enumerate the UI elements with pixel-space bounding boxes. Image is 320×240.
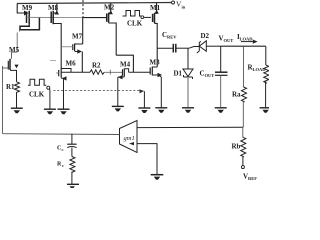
transistor M6: [56, 68, 71, 81]
wire: top supply rail: [17, 3, 172, 4]
wire: mirror gate line M9-M8-junction-M2: [27, 16, 84, 18]
ground at dashed net end: [138, 108, 150, 113]
wire: node wire M6/M7/R2: [61, 71, 90, 73]
wire: M2 drain jog over M4: [116, 55, 133, 72]
resistor R1: [15, 82, 20, 93]
svg-text:c: c: [62, 163, 64, 168]
ground below R1: [11, 108, 23, 113]
CLK square wave (bottom left): [28, 79, 46, 85]
transistor M3: [150, 67, 162, 78]
wire: Ra down to feedback node: [242, 102, 244, 128]
wire: Rb to VREF terminal: [242, 157, 244, 166]
wire: M1 drain node to CREV: [157, 47, 173, 49]
wire: dashed net arrow into grounded drop: [139, 89, 144, 93]
ground below Rc: [67, 184, 79, 188]
wire: feedback node down to Rb: [242, 127, 244, 137]
ground below CLK bubble: [44, 109, 56, 114]
diode D2 (schottky, pointing left): [197, 41, 207, 53]
svg-text:Ra: Ra: [232, 91, 241, 99]
capacitor COUT: [215, 72, 228, 75]
wire: Rc to ground: [71, 172, 73, 185]
wire: M2 drain down: [109, 23, 117, 55]
wire: RLOAD to ground: [265, 81, 267, 107]
node Vin terminal circle: [172, 1, 175, 4]
resistor Ra: [242, 87, 247, 102]
wire: M3 source to ground: [160, 77, 162, 107]
wire: gm1 output to left feedback wire: [3, 133, 120, 136]
svg-text:CLK: CLK: [29, 91, 45, 99]
svg-text:LOAD: LOAD: [240, 37, 254, 42]
wire: M7 source down to R2 node: [81, 52, 83, 73]
transistor M8: [51, 4, 59, 25]
svg-text:M1: M1: [150, 4, 161, 12]
svg-text:Rb: Rb: [232, 143, 241, 151]
ground below M4: [112, 106, 124, 111]
wire: D1 to ground: [187, 78, 189, 107]
wire: Cc to Rc: [71, 148, 73, 157]
wire: VOUT down to COUT: [220, 46, 222, 71]
wire: compensation tap from output wire: [71, 134, 73, 144]
wire: node to D2: [188, 46, 199, 48]
svg-text:M2: M2: [104, 4, 115, 12]
svg-text:R1: R1: [6, 83, 15, 91]
wire: COUT to ground: [220, 75, 222, 107]
wire: M9 drain down to M5 source: [17, 30, 19, 52]
transistor M9: [17, 4, 29, 25]
wire: M5 drain to R1: [10, 70, 17, 81]
ground below D1: [182, 108, 194, 113]
inverter bubble on CLK line: [47, 86, 50, 89]
wire: M4 source to ground: [117, 77, 119, 106]
svg-text:LOAD: LOAD: [253, 67, 267, 72]
wire: M7 gate lead from M8 drain line: [61, 46, 73, 48]
resistor Rb: [241, 137, 246, 157]
ground below M6: [58, 109, 70, 114]
svg-text:c: c: [62, 147, 64, 152]
resistor RLOAD: [264, 65, 269, 83]
wire: small stray dash near M7: [50, 60, 56, 62]
wire: junction to M2 gate: [83, 17, 107, 19]
svg-text:REV: REV: [167, 35, 177, 40]
wire: M6 source to ground: [63, 78, 65, 109]
wire: R1 to ground: [16, 93, 18, 108]
svg-text:OUT: OUT: [224, 38, 234, 43]
svg-text:M6: M6: [66, 60, 77, 68]
wire: VOUT rail to RLOAD: [221, 45, 266, 47]
svg-text:gm1: gm1: [124, 135, 135, 142]
transistor M5: [8, 59, 18, 70]
CLK square wave near M1: [123, 11, 142, 17]
inverter bubble at M1 gate: [141, 16, 144, 19]
resistor R2: [90, 70, 104, 75]
wire: M8 drain down to M6: [53, 24, 61, 69]
transistor M4: [118, 68, 129, 79]
svg-text:R2: R2: [92, 61, 101, 69]
resistor Rc: [70, 157, 75, 173]
wire: VOUT down to Ra: [243, 46, 245, 87]
svg-text:M5: M5: [9, 46, 20, 54]
wire: dashed vertical at x=83 from top edge: [82, 0, 84, 18]
transistor M7: [73, 43, 83, 53]
wire: R2 to M4 gate and on to M3 gate: [104, 71, 122, 73]
svg-text:D1: D1: [174, 70, 183, 78]
wire: bubble to ground drop: [49, 89, 51, 109]
svg-text:in: in: [182, 4, 186, 9]
wire: bubble to M1 gate: [144, 16, 151, 18]
svg-text:M4: M4: [120, 61, 131, 69]
wire: M4 drain-gate node to M3 gate: [129, 71, 151, 73]
current ILOAD arrow: [241, 40, 258, 44]
wire: M9 drain diode-tie down-left-right-up to mirror gate line: [20, 18, 39, 30]
ground below gm1 minus input: [151, 175, 164, 180]
wire: M1 drain down to M3 drain with CREV tap: [155, 23, 158, 67]
wire: M7 drain rises to junction: [82, 18, 84, 44]
svg-text:OUT: OUT: [205, 73, 215, 78]
svg-text:REF: REF: [248, 176, 257, 181]
svg-text:M3: M3: [150, 59, 161, 67]
capacitor Cc: [67, 144, 76, 147]
svg-text:D2: D2: [201, 32, 210, 40]
ground below M3: [155, 108, 167, 113]
junction tick on R2 wire: [109, 70, 111, 75]
wire: dashed clock net to the right: [54, 89, 141, 91]
svg-text:M7: M7: [72, 33, 83, 41]
wire: node down to D1: [187, 48, 189, 69]
wire: down to RLOAD: [265, 46, 267, 65]
wire: D2 to VOUT node: [206, 45, 220, 47]
svg-text:M9: M9: [22, 4, 33, 12]
ground below COUT: [215, 108, 227, 113]
svg-text:CLK: CLK: [127, 20, 143, 28]
capacitor CREV: [173, 44, 176, 53]
diode D1 (schottky, pointing down): [183, 69, 193, 79]
wire: CREV to D1/D2 node: [176, 47, 189, 49]
transistor M1: [153, 3, 159, 24]
ground below RLOAD: [260, 108, 269, 113]
wire: gm1 plus input from feedback node: [137, 126, 243, 128]
node VREF terminal circle: [241, 166, 244, 169]
wire: M9 drain jog to M5 source: [12, 52, 18, 59]
amplifier gm1: [120, 121, 138, 153]
transistor M2: [107, 3, 113, 23]
wire: left feedback wire to M5 gate: [2, 66, 4, 134]
wire: gm1 minus input to ground: [137, 144, 157, 175]
